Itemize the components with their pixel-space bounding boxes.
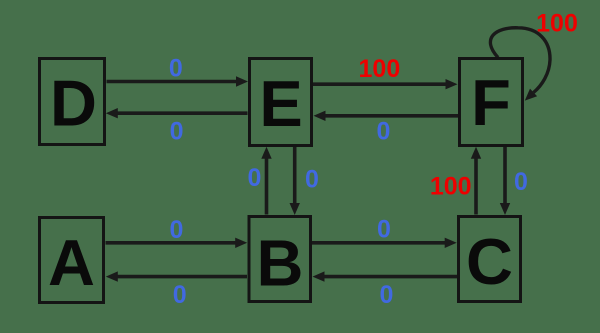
edge F->E [314,111,459,121]
weight 0 edge F->C [514,168,528,196]
svg-text:E: E [259,67,302,140]
edge D->E [107,76,249,86]
weight 0 edge E->B [305,166,319,194]
svg-text:0: 0 [377,216,391,244]
edge B->E [261,147,271,215]
svg-text:0: 0 [514,168,528,196]
svg-text:0: 0 [170,118,184,146]
svg-text:C: C [466,225,513,298]
node A box [40,218,104,303]
weight 100 edge F->F [536,10,578,38]
node B box [249,217,311,302]
svg-text:F: F [471,66,511,139]
svg-text:B: B [257,227,304,300]
node E label [259,67,302,140]
node F label [471,66,511,139]
edge B->C [312,238,457,248]
weight 0 edge B->A [173,281,187,309]
weight 0 edge B->C [377,216,391,244]
edge E->F [313,79,458,89]
weight 0 edge E->D [170,118,184,146]
node C box [459,217,521,302]
svg-text:D: D [50,67,97,140]
node C label [466,225,513,298]
svg-text:100: 100 [359,55,401,83]
weight 0 edge B->E [248,164,262,192]
edge B->A [106,271,247,281]
weight 100 edge C->F [430,173,472,201]
edge C->F [471,147,481,215]
edge F->C [500,147,510,215]
edge E->B [290,147,300,215]
svg-text:0: 0 [305,166,319,194]
weight 0 edge C->B [379,281,393,309]
node B label [257,227,304,300]
svg-text:A: A [48,226,95,299]
svg-text:100: 100 [430,173,472,201]
edge F->F self-loop [490,28,550,101]
edge E->D [106,108,248,118]
weight 0 edge F->E [377,118,391,146]
svg-text:0: 0 [173,281,187,309]
svg-text:0: 0 [379,281,393,309]
weight 0 edge D->E [169,55,183,83]
svg-text:100: 100 [536,10,578,38]
node D label [50,67,97,140]
weight 0 edge A->B [170,216,184,244]
svg-text:0: 0 [377,118,391,146]
node F box [460,59,523,146]
weight 100 edge E->F [359,55,401,83]
node A label [48,226,95,299]
svg-text:0: 0 [248,164,262,192]
edge A->B [106,238,248,248]
node D box [40,59,105,145]
edge C->B [313,271,458,281]
node E box [250,59,312,146]
svg-text:0: 0 [169,55,183,83]
svg-text:0: 0 [170,216,184,244]
